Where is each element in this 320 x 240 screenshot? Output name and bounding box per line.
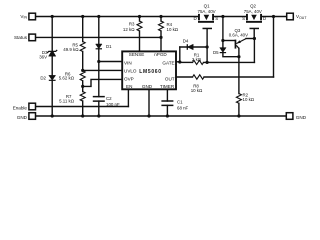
svg-text:100 nF: 100 nF — [106, 102, 120, 107]
svg-text:VOUT: VOUT — [296, 14, 307, 20]
svg-text:10 kΩ: 10 kΩ — [243, 97, 255, 102]
svg-text:UVLO: UVLO — [124, 69, 137, 74]
svg-text:10 kΩ: 10 kΩ — [191, 88, 203, 93]
svg-text:10 kΩ: 10 kΩ — [167, 27, 179, 32]
svg-text:S: S — [215, 16, 218, 21]
svg-text:5.11 kΩ: 5.11 kΩ — [59, 99, 75, 104]
svg-text:Enable: Enable — [13, 105, 28, 110]
svg-text:75A, 40V: 75A, 40V — [198, 9, 216, 14]
svg-text:75A, 40V: 75A, 40V — [244, 9, 262, 14]
svg-text:2 kΩ: 2 kΩ — [192, 57, 202, 62]
svg-text:D4: D4 — [183, 39, 189, 44]
svg-text:C2: C2 — [106, 96, 112, 101]
svg-text:Q1: Q1 — [204, 4, 210, 9]
svg-text:TIMER: TIMER — [160, 84, 175, 89]
svg-text:OUT: OUT — [165, 76, 175, 81]
svg-text:EN: EN — [126, 84, 132, 89]
svg-text:SENSE: SENSE — [129, 52, 145, 57]
svg-text:D1: D1 — [106, 44, 112, 49]
svg-text:nPGD: nPGD — [154, 52, 167, 57]
svg-text:LM5060: LM5060 — [139, 69, 162, 75]
svg-text:49.9 kΩ: 49.9 kΩ — [63, 47, 79, 52]
svg-text:5.62 kΩ: 5.62 kΩ — [59, 76, 75, 81]
svg-text:GND: GND — [296, 115, 307, 120]
svg-text:GND: GND — [17, 115, 28, 120]
svg-text:GATE: GATE — [162, 60, 174, 65]
svg-text:GND: GND — [142, 84, 153, 89]
svg-text:VIN: VIN — [124, 60, 132, 65]
svg-text:C1: C1 — [177, 100, 183, 105]
svg-text:OVP: OVP — [124, 76, 134, 81]
svg-text:0.6A, 40V: 0.6A, 40V — [229, 32, 248, 37]
svg-text:36V: 36V — [39, 55, 47, 60]
svg-text:VIN: VIN — [20, 14, 27, 20]
svg-text:12 kΩ: 12 kΩ — [123, 27, 135, 32]
svg-text:Status: Status — [14, 35, 28, 40]
svg-text:D5: D5 — [213, 50, 219, 55]
svg-text:68 nF: 68 nF — [177, 106, 189, 111]
svg-text:Q2: Q2 — [250, 4, 256, 9]
svg-text:S: S — [242, 16, 245, 21]
svg-text:D2: D2 — [40, 75, 46, 80]
